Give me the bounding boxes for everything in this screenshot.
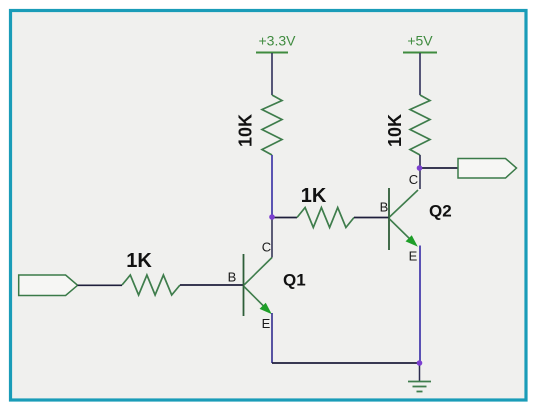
pin stub +5V rail to resistor 10K right (419, 53, 421, 95)
wire resistor 1K left to Q1 base (180, 284, 244, 286)
svg-text:E: E (262, 316, 271, 331)
wire Q1 emitter to bottom rail (271, 313, 273, 363)
resistor 1K middle (297, 185, 354, 228)
input port (19, 275, 78, 296)
svg-text:C: C (262, 240, 271, 255)
resistor 10K left (235, 95, 282, 155)
svg-text:1K: 1K (301, 185, 327, 207)
ground node junction (417, 360, 423, 366)
transistor Q1 (228, 240, 306, 332)
wire node B to output port (420, 167, 458, 169)
ground (408, 363, 431, 392)
svg-text:1K: 1K (126, 250, 152, 272)
wire node A to Q1 collector pin (271, 217, 273, 258)
wire resistor 1K middle to Q2 base (354, 217, 389, 219)
wire node A to resistor 1K middle (272, 217, 297, 219)
resistor 1K left (122, 250, 180, 295)
svg-text:C: C (409, 172, 418, 187)
wire resistor 10K right to node B (419, 155, 421, 168)
svg-text:10K: 10K (385, 114, 405, 147)
wire input port to resistor 1K left (78, 284, 122, 286)
svg-text:Q1: Q1 (283, 271, 306, 290)
svg-text:Q2: Q2 (429, 202, 452, 221)
pin stub +3.3V rail to resistor 10K left (271, 53, 273, 95)
transistor Q2 (380, 172, 452, 264)
wire node B to Q2 collector pin (419, 168, 421, 189)
bottom wire Q1 emitter to ground node (272, 362, 420, 364)
svg-text:E: E (409, 249, 418, 264)
wire Q2 emitter to ground node (419, 246, 421, 364)
node B junction (417, 165, 423, 171)
node A junction (269, 214, 275, 220)
svg-text:10K: 10K (235, 114, 255, 147)
svg-text:+5V: +5V (407, 33, 433, 49)
resistor 10K right (385, 95, 430, 155)
svg-text:B: B (228, 270, 237, 285)
output port (458, 159, 517, 179)
svg-text:B: B (380, 200, 389, 215)
power rail +5V (403, 33, 437, 53)
wire resistor 10K left to node A (271, 155, 273, 217)
power rail +3.3V (256, 33, 296, 53)
svg-text:+3.3V: +3.3V (259, 33, 297, 49)
